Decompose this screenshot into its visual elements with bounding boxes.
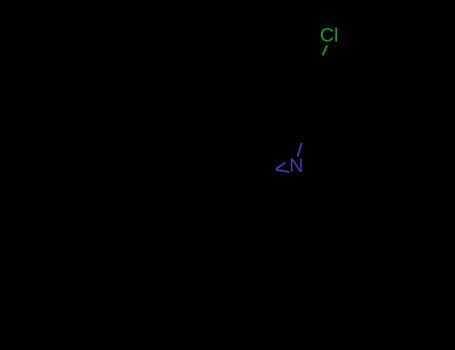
double bond C=N main line blue half xyxy=(275,170,289,172)
bond N-aryl blue half xyxy=(298,143,302,157)
svg-text:N: N xyxy=(289,155,303,177)
double bond C=N inner line blue half xyxy=(276,163,285,169)
bond Cl-C green half xyxy=(323,45,328,55)
svg-text:Cl: Cl xyxy=(320,24,338,46)
